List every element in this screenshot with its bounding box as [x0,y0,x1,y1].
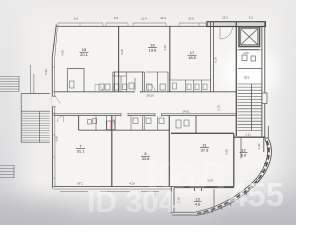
svg-text:28.10: 28.10 [146,94,154,98]
svg-text:12.4: 12.4 [141,17,147,21]
svg-text:14.91: 14.91 [182,110,190,114]
svg-text:31.1: 31.1 [77,149,86,154]
svg-text:1.06: 1.06 [243,51,249,55]
svg-text:4.90: 4.90 [257,143,261,149]
svg-text:5.1: 5.1 [249,16,254,20]
svg-text:4.05: 4.05 [113,119,117,125]
svg-text:4.35: 4.35 [61,50,65,56]
svg-text:8.3: 8.3 [114,16,119,20]
svg-text:20.1: 20.1 [80,52,89,57]
svg-text:1.11: 1.11 [245,133,251,137]
svg-text:18.5: 18.5 [188,55,197,60]
svg-text:19.6: 19.6 [149,48,158,53]
svg-text:4.35: 4.35 [120,49,124,55]
svg-text:24.0: 24.0 [188,17,194,21]
svg-text:4.36: 4.36 [163,45,167,51]
svg-text:4.20: 4.20 [129,182,135,186]
svg-text:ЛТ2: ЛТ2 [244,76,250,80]
svg-text:6.0: 6.0 [241,153,247,158]
svg-text:3.16: 3.16 [217,105,221,111]
svg-text:6.0: 6.0 [74,17,79,21]
svg-text:5.93: 5.93 [44,69,48,75]
svg-text:4.98: 4.98 [55,136,59,142]
svg-text:16.1: 16.1 [222,16,228,20]
svg-text:6.18: 6.18 [214,57,218,63]
svg-text:42.9: 42.9 [160,16,166,20]
svg-text:ОГС: ОГС [77,182,83,186]
